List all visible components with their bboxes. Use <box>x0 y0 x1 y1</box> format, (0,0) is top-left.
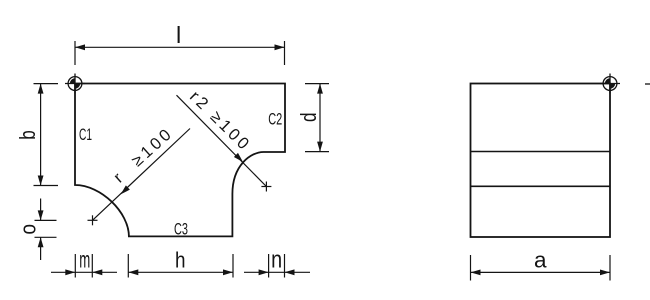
svg-text:C3: C3 <box>174 221 188 239</box>
svg-text:a: a <box>534 247 547 272</box>
svg-text:C2: C2 <box>268 110 282 128</box>
svg-text:l: l <box>176 22 181 48</box>
svg-text:d: d <box>296 113 321 123</box>
svg-text:b: b <box>15 130 40 140</box>
svg-text:h: h <box>175 247 186 272</box>
svg-text:m: m <box>79 246 90 272</box>
svg-text:n: n <box>271 246 282 273</box>
svg-text:o: o <box>16 224 41 235</box>
svg-text:C1: C1 <box>79 126 92 144</box>
